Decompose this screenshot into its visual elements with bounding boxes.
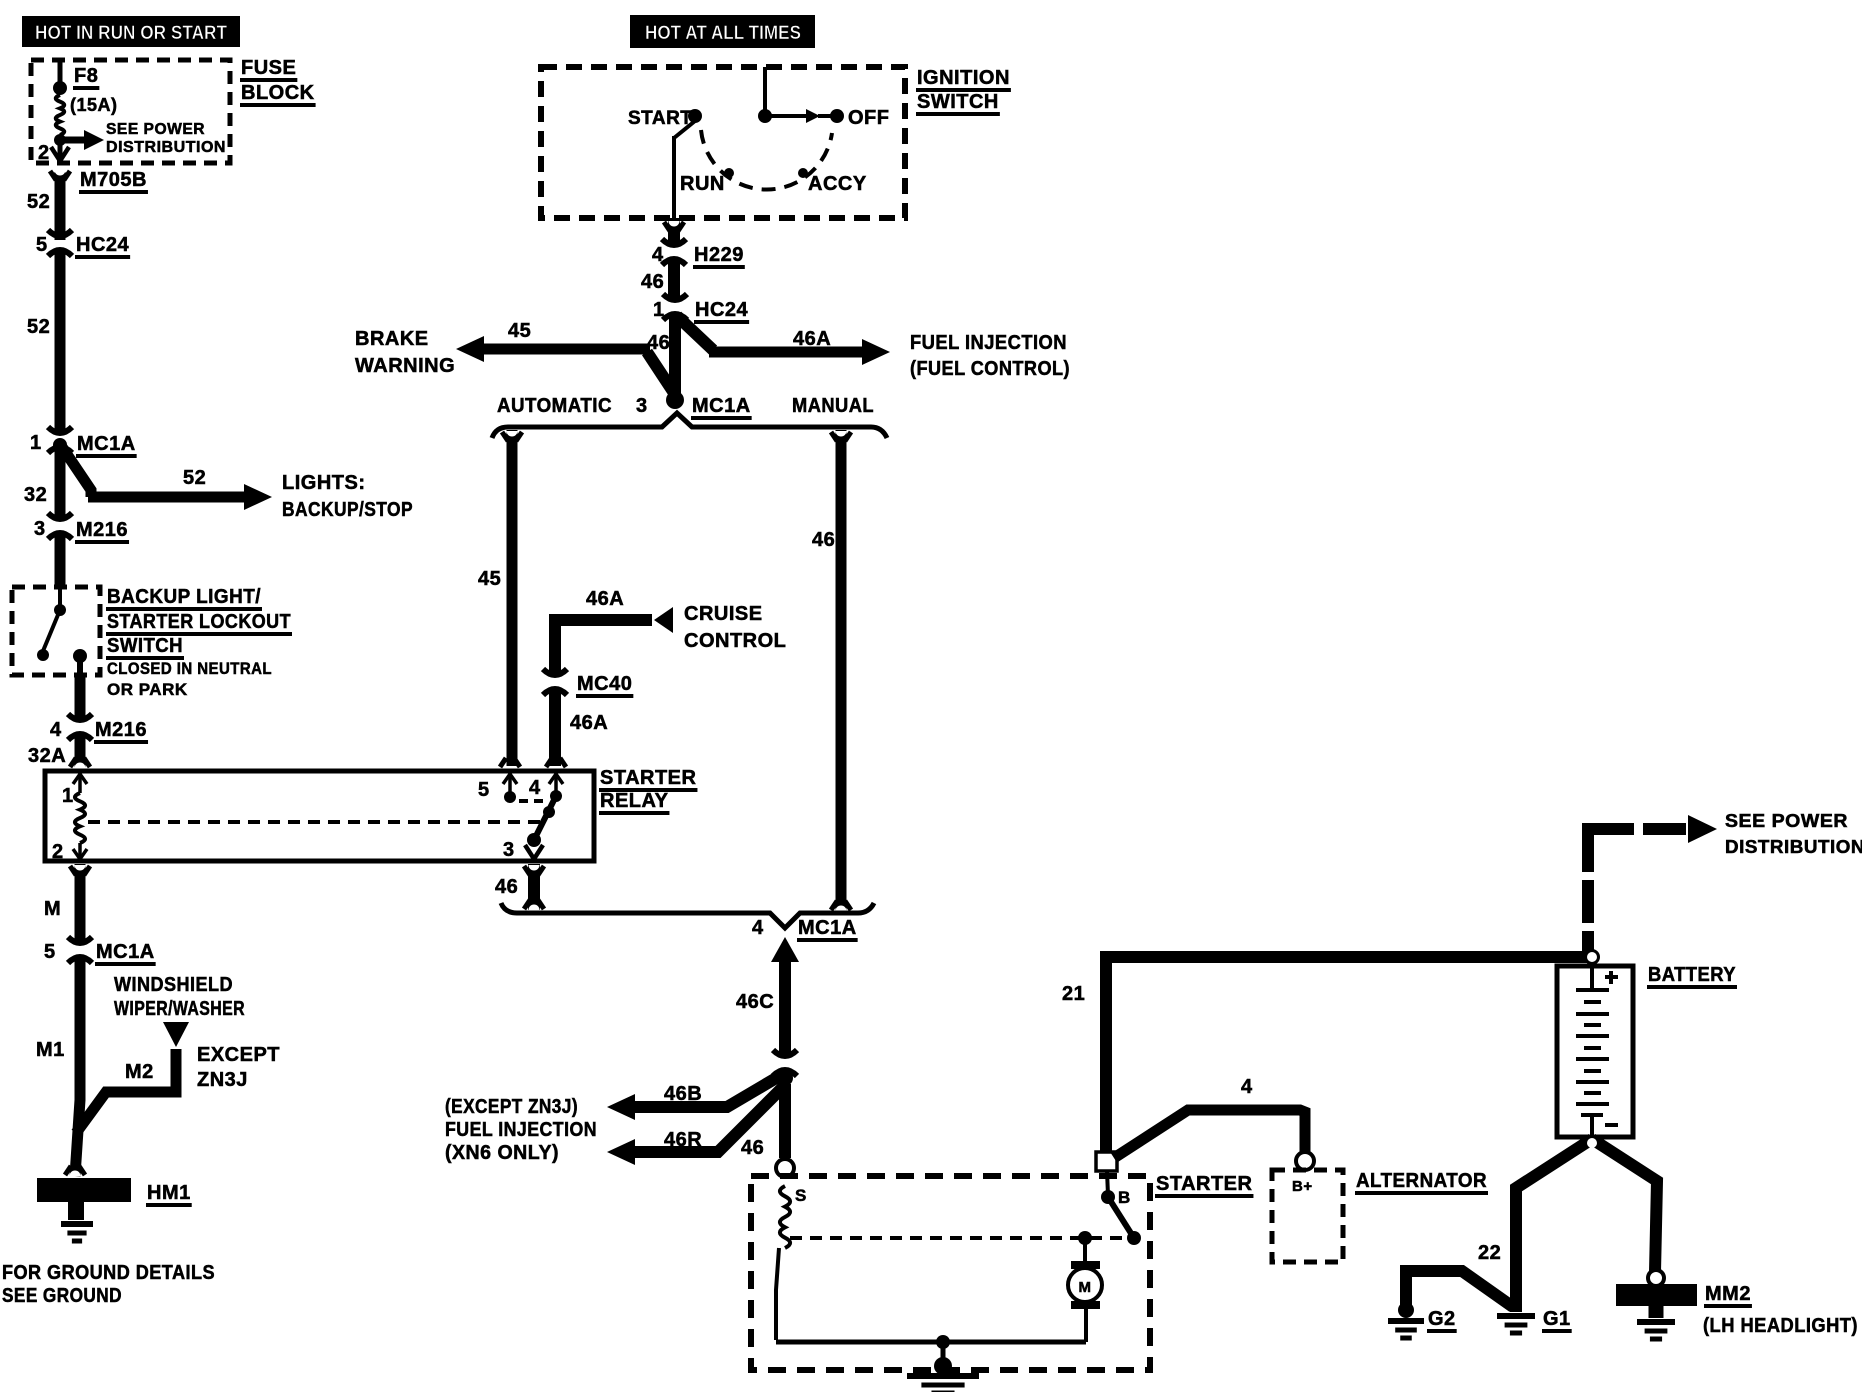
wire 52 (lower) [55,248,66,434]
node F8 top [53,81,67,95]
svg-text:SEE GROUND: SEE GROUND [2,1285,122,1307]
switch output stub [77,656,83,676]
battery bottom terminal [1581,1113,1603,1117]
node 46 branch junction [779,1069,791,1078]
svg-text:RELAY: RELAY [600,790,669,812]
starter motor-link node [1078,1231,1092,1245]
svg-text:FUEL INJECTION: FUEL INJECTION [445,1119,597,1141]
svg-text:FUEL INJECTION: FUEL INJECTION [910,332,1067,354]
svg-text:ACCY: ACCY [808,173,867,195]
svg-text:52: 52 [27,316,50,338]
wire 46 (manual) [836,430,847,911]
svg-text:46A: 46A [793,328,831,350]
svg-text:M: M [44,898,61,920]
svg-text:M: M [1079,1279,1092,1296]
svg-text:2: 2 [52,841,64,863]
ignition common node [758,109,772,123]
svg-text:M216: M216 [95,719,147,741]
node MC1A branch [53,438,67,452]
connector on 46C [778,1061,792,1065]
power flag HOT AT ALL TIMES [630,15,815,48]
connector below relay pin2 [70,866,76,875]
MM2 ground stub [1649,1306,1664,1318]
svg-text:46: 46 [495,876,518,898]
relay contact blade [534,796,556,840]
ground blob G2 [1398,1302,1414,1318]
svg-text:45: 45 [478,568,501,590]
svg-text:4: 4 [1241,1076,1253,1098]
terminal B+ (open circle) [1296,1152,1314,1170]
svg-text:5: 5 [44,941,56,963]
connector M705B [50,171,56,180]
relay pin 3 exit [525,845,543,859]
svg-text:IGNITION: IGNITION [917,67,1010,89]
connector 32A bell at relay [70,758,76,767]
svg-text:46: 46 [641,271,664,293]
svg-text:5: 5 [36,234,48,256]
connector M216 (pin 3) [53,524,67,528]
battery negative split [1516,1139,1592,1312]
svg-text:WIPER/WASHER: WIPER/WASHER [114,998,245,1020]
svg-text:B+: B+ [1292,1178,1313,1195]
fuse block box FUSE BLOCK [31,60,230,163]
arrow up into MC1A pin 4 [771,937,799,962]
relay pin 5 [508,773,512,797]
svg-text:BATTERY: BATTERY [1648,964,1736,986]
ignition switch box [541,67,905,218]
svg-text:M1: M1 [36,1039,65,1061]
wire M1 [75,956,80,1176]
junction at fuse bottom [54,134,66,146]
svg-text:MC1A: MC1A [77,433,136,455]
svg-text:FUSE: FUSE [241,57,296,79]
svg-text:HOT IN RUN OR START: HOT IN RUN OR START [35,23,227,44]
wire 46 below H229 [668,258,680,301]
battery - junction hole [1587,1138,1597,1148]
battery minus sign [1605,1123,1618,1127]
svg-text:HC24: HC24 [695,299,749,321]
svg-text:B: B [1118,1188,1131,1207]
solenoid coil tail [776,1248,779,1340]
starter blade nodes [1101,1190,1115,1204]
dashed wire to power distribution [1582,931,1594,954]
starter box [751,1176,1150,1370]
terminal B (square) [1096,1152,1117,1171]
svg-text:52: 52 [27,191,50,213]
svg-text:STARTER: STARTER [600,767,697,789]
svg-text:M2: M2 [125,1061,154,1083]
svg-text:52: 52 [183,467,206,489]
switch blade (open) [43,610,60,651]
HM1 ground stub [68,1202,84,1220]
wire 52 to lights arrow [62,447,91,497]
svg-text:SEE POWER: SEE POWER [106,121,205,138]
svg-text:(LH HEADLIGHT): (LH HEADLIGHT) [1703,1315,1858,1337]
wire 46B to fuel injection [634,1074,783,1107]
node MC1A (pin 3) junction [666,391,684,409]
ignition RUN node [724,168,734,178]
svg-text:46A: 46A [570,712,608,734]
starter ground node [936,1335,950,1349]
starter ground stub [941,1342,946,1362]
svg-text:3: 3 [503,839,515,861]
svg-text:MC40: MC40 [577,673,632,695]
connector bell wire46 top [831,432,837,441]
wire 46 to MC1A junction [669,313,681,398]
relay pin 2 [78,843,82,860]
svg-text:46: 46 [741,1137,764,1159]
svg-text:46R: 46R [664,1129,702,1151]
svg-text:MM2: MM2 [1705,1283,1751,1305]
svg-text:1: 1 [653,299,665,321]
svg-text:SWITCH: SWITCH [107,635,183,657]
svg-text:2: 2 [38,142,50,164]
svg-text:S: S [795,1186,807,1205]
ignition OFF node [830,109,844,123]
relay pin 3 node [527,833,541,847]
svg-text:MC1A: MC1A [798,917,857,939]
svg-text:3: 3 [34,518,46,540]
svg-text:CLOSED IN NEUTRAL: CLOSED IN NEUTRAL [107,659,272,678]
relay pin 1 [78,773,82,793]
switch pivot node [54,604,66,616]
connector M216 (pin 4) [73,725,87,729]
terminal MM2 (open circle) [1648,1270,1664,1286]
svg-text:CONTROL: CONTROL [684,630,786,652]
svg-text:1: 1 [62,785,74,807]
svg-text:MANUAL: MANUAL [792,395,874,417]
svg-text:46C: 46C [736,991,774,1013]
backup light/starter lockout switch box [12,587,100,675]
svg-text:WARNING: WARNING [355,355,455,377]
svg-text:G1: G1 [1543,1308,1571,1330]
wire 45 to brake warning [482,344,650,355]
svg-text:BACKUP/STOP: BACKUP/STOP [282,499,413,521]
wire 32 [55,446,66,520]
connector HC24 (pin 1) [668,305,682,309]
connector MC40 [548,680,562,684]
svg-text:ALTERNATOR: ALTERNATOR [1356,1170,1487,1192]
svg-text:21: 21 [1062,983,1085,1005]
svg-text:4: 4 [652,244,664,266]
connector at HM1 [65,1166,71,1175]
svg-text:CRUISE: CRUISE [684,603,763,625]
svg-text:(FUEL CONTROL): (FUEL CONTROL) [910,358,1070,380]
svg-text:AUTOMATIC: AUTOMATIC [497,395,612,417]
wire 32 to switch [55,531,66,589]
terminal S (open circle) [776,1159,794,1177]
starter solenoid coil [780,1186,790,1248]
switch input stub [58,589,62,605]
ground symbol G2 [1388,1318,1424,1324]
svg-text:45: 45 [508,320,531,342]
svg-text:DISTRIBUTION: DISTRIBUTION [106,139,226,156]
svg-text:46B: 46B [664,1083,702,1105]
connector MC1A (pin 1) [53,438,67,442]
ignition wire to OFF [765,114,806,118]
svg-text:LIGHTS:: LIGHTS: [282,472,366,494]
arrow to cruise control (reversed) [654,607,673,633]
arrow SEE POWER DISTRIBUTION (fuse block) [60,137,84,144]
battery + junction hole [1587,952,1597,962]
svg-text:(XN6 ONLY): (XN6 ONLY) [445,1142,559,1164]
wire 46 to starter S [779,1084,791,1158]
starter internal wire [776,1340,1086,1345]
svg-text:MC1A: MC1A [96,941,155,963]
relay dashed link line [88,820,540,824]
svg-text:SWITCH: SWITCH [917,91,999,113]
svg-text:BACKUP LIGHT/: BACKUP LIGHT/ [107,586,261,608]
wire 46A to fuel injection [677,316,713,350]
svg-text:RUN: RUN [680,173,725,195]
svg-text:STARTER LOCKOUT: STARTER LOCKOUT [107,611,291,633]
connector MC1A (pin 5, lower) [73,948,87,952]
svg-text:G2: G2 [1428,1308,1456,1330]
ignition feed stub [763,67,767,114]
relay pin 4 [554,773,558,796]
ground bar HM1 [37,1178,131,1202]
connector bell wire45 at relay [500,758,506,767]
svg-text:HM1: HM1 [147,1182,191,1204]
arrow to windshield wiper/washer [163,1022,189,1047]
svg-text:1: 1 [30,432,42,454]
merge brace to MC1A pin4 [501,903,874,928]
wire 32A lower [75,733,86,768]
svg-text:ZN3J: ZN3J [197,1069,248,1091]
wire 32A upper [75,676,86,720]
wire 46A cruise branch [555,620,652,676]
svg-text:46: 46 [647,332,670,354]
svg-text:DISTRIBUTION: DISTRIBUTION [1725,837,1862,857]
wire from ignition switch [668,218,680,246]
split brace automatic/manual [492,413,887,438]
wire 46A lower [549,688,561,766]
svg-text:F8: F8 [74,65,98,87]
svg-text:5: 5 [478,779,490,801]
svg-text:BRAKE: BRAKE [355,328,429,350]
svg-text:MC1A: MC1A [692,395,751,417]
svg-text:BLOCK: BLOCK [241,82,315,104]
starter ground blob [934,1357,952,1375]
ground symbol HM1 [61,1221,93,1227]
wire 46 below relay pin 3 [528,864,540,910]
ignition ACCY node [798,168,808,178]
connector bell wire46A at relay [546,758,552,767]
svg-text:46A: 46A [586,588,624,610]
wire 52 (upper) [55,172,66,240]
switch output node [73,649,87,663]
svg-text:4: 4 [529,777,541,799]
svg-text:(15A): (15A) [70,95,118,115]
wire 45 (automatic) [507,430,518,766]
battery plus sign [1605,975,1618,979]
svg-text:SEE POWER: SEE POWER [1725,811,1848,831]
wire 22 [1406,1271,1513,1312]
wire 21 [1106,957,1593,1152]
svg-text:FOR GROUND DETAILS: FOR GROUND DETAILS [2,1262,215,1284]
ground bar MM2 [1616,1284,1697,1306]
svg-text:32: 32 [24,484,47,506]
svg-text:46: 46 [812,529,835,551]
connector bell wire46 bottom [831,901,837,910]
relay coil [75,793,85,843]
starter dashed actuator link [790,1236,1128,1240]
connector H229 (pin 4) [667,250,681,254]
battery top terminal [1590,968,1594,990]
battery junction + (node) [1584,949,1600,965]
ignition rotor arc [701,130,832,190]
svg-text:WINDSHIELD: WINDSHIELD [114,974,233,996]
svg-text:(EXCEPT ZN3J): (EXCEPT ZN3J) [445,1096,578,1118]
ground symbol G1 [1497,1313,1535,1319]
svg-text:START: START [628,108,692,129]
svg-text:3: 3 [636,395,648,417]
svg-text:22: 22 [1478,1242,1501,1264]
wire B to blade [1107,1171,1108,1195]
ground symbol MM2 [1637,1319,1675,1325]
wire 46R to fuel injection [634,1086,784,1152]
svg-text:HC24: HC24 [76,234,130,256]
connector HC24 (pin 5) [53,241,67,245]
svg-text:STARTER: STARTER [1156,1173,1253,1195]
svg-text:HOT AT ALL TIMES: HOT AT ALL TIMES [645,23,801,44]
fuse F8 (15A) [56,95,65,135]
svg-text:OR PARK: OR PARK [107,680,188,699]
battery plates [1584,1000,1601,1004]
switch open contact node [37,649,49,661]
svg-text:OFF: OFF [848,107,890,129]
wire 46C [779,958,791,1057]
ground symbol (starter) [907,1373,979,1379]
alternator box [1272,1170,1343,1262]
wire 4 to alternator [1114,1110,1305,1158]
starter motor M [1084,1309,1088,1342]
starter contact blade [1108,1197,1134,1238]
wire M [75,864,86,944]
battery box [1557,966,1633,1137]
svg-text:4: 4 [752,917,764,939]
power flag HOT IN RUN OR START [22,16,240,47]
starter relay box [45,771,594,861]
wire M2 branch [76,1049,176,1133]
svg-text:H229: H229 [694,244,744,266]
relay pin5-pin4 dash [519,799,544,803]
svg-text:EXCEPT: EXCEPT [197,1044,280,1066]
wire into fuse F8 [58,62,63,86]
svg-text:4: 4 [50,719,62,741]
ignition START node [688,109,702,123]
svg-text:M216: M216 [76,519,128,541]
ignition START wire [674,121,695,138]
svg-text:M705B: M705B [80,169,147,191]
connector bell wire45 top [502,432,508,441]
svg-text:32A: 32A [28,745,66,767]
